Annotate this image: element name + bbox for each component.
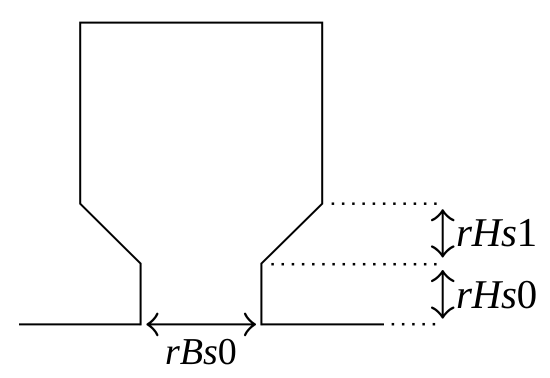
left surface line (19, 323, 141, 325)
slot outline (tooth/slot profile) (80, 23, 322, 326)
label rHs1 (458, 219, 535, 247)
dotted extension of right surface line (392, 323, 436, 326)
dimension arrow rHs1 (wedge height) (432, 210, 453, 256)
dotted level line at top of rHs1 (slot wedge top) (332, 202, 437, 205)
label rHs0 (458, 281, 536, 309)
dimension arrow rBs0 (slot opening width) (148, 314, 255, 335)
label rBs0 (167, 339, 236, 365)
right surface line (261, 323, 384, 325)
dimension arrow rHs0 (slot opening height) (432, 271, 453, 317)
dotted level line between rHs1 and rHs0 (271, 263, 436, 266)
